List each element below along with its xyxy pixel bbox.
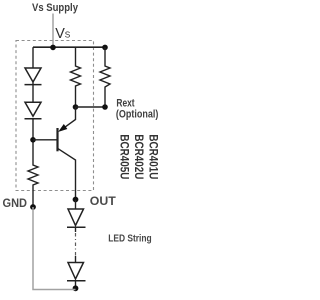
wire: R1 to emitter node: [75, 88, 77, 107]
diode D2: [25, 102, 42, 118]
svg-text:(Optional): (Optional): [116, 108, 159, 120]
wire: top supply rail: [33, 46, 105, 48]
svg-text:OUT: OUT: [90, 194, 117, 208]
net label: VS: [55, 26, 71, 42]
transistor Q1 (PNP): [58, 107, 76, 170]
LED D4: [67, 263, 86, 281]
diode D1: [25, 68, 42, 85]
wire: base node to Q1 base: [33, 139, 57, 141]
node: OUT pin junction: [73, 197, 79, 203]
LED D3: [67, 209, 86, 227]
resistor R1 (internal): [71, 64, 81, 88]
Q1 emitter lead with arrow: [61, 107, 76, 130]
node: emitter junction: [73, 104, 79, 110]
svg-text:LED String: LED String: [108, 233, 152, 244]
part label: BCR401U / BCR402U / BCR405U: [118, 134, 161, 179]
wire: D1 to D2: [32, 82, 34, 102]
wire: Rext top lead: [104, 47, 106, 64]
wire: collector to OUT node: [75, 170, 77, 200]
resistor R2 (bias resistor to GND): [28, 163, 38, 187]
IC outline: BCR40xU dashed boundary: [16, 41, 94, 191]
net label: Vs Supply: [32, 2, 78, 14]
label: Rext (Optional): [116, 97, 159, 120]
svg-text:GND: GND: [3, 196, 28, 210]
Q1 base bar: [56, 128, 58, 151]
svg-text:BCR401UBCR402UBCR405U: BCR401UBCR402UBCR405U: [118, 134, 160, 179]
node: Vs rail junction: [50, 45, 56, 51]
wire: LED D4 to return node: [75, 281, 77, 289]
wire: rail down to diode D1: [32, 47, 34, 68]
pin label: OUT: [90, 194, 117, 208]
svg-text:Vs Supply: Vs Supply: [32, 2, 78, 14]
wire: R2 to GND node: [32, 187, 34, 207]
wire: Rext bottom lead: [104, 89, 106, 107]
wire: D2 to base node: [32, 119, 34, 163]
wire: emitter node to Rext bottom: [76, 106, 106, 108]
node: base tap junction: [30, 137, 36, 143]
resistor Rext: [100, 64, 110, 89]
pin label: GND: [3, 196, 28, 210]
wire: OUT node to LED D3: [75, 200, 77, 210]
label: LED String: [108, 233, 152, 244]
node: Rext top junction: [102, 45, 108, 51]
wire: Vs supply lead: [52, 14, 54, 48]
node: Rext bottom junction: [102, 104, 108, 110]
wire: ground return path: [33, 207, 76, 290]
wire: middle branch rail to R1: [75, 47, 77, 64]
node: LED return junction: [73, 285, 79, 291]
node: GND pin junction: [30, 204, 36, 210]
svg-text:S: S: [65, 30, 71, 39]
wire: LED string continuation (dash-dot): [75, 227, 77, 262]
Q1 collector lead: [58, 148, 76, 170]
svg-text:V: V: [55, 26, 65, 42]
